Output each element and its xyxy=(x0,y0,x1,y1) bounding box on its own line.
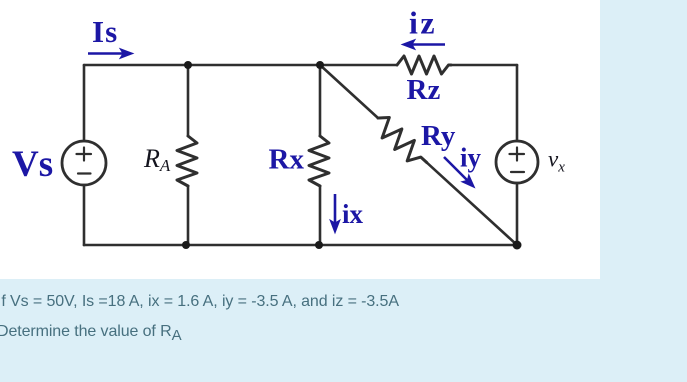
svg-text:Vs: Vs xyxy=(12,144,53,185)
svg-text:vx: vx xyxy=(548,147,565,176)
svg-text:iz: iz xyxy=(409,5,437,41)
svg-text:ix: ix xyxy=(342,199,364,229)
svg-text:Ry: Ry xyxy=(421,120,456,152)
svg-text:Rz: Rz xyxy=(407,74,441,106)
svg-text:Rx: Rx xyxy=(269,144,305,176)
svg-text:RA: RA xyxy=(143,144,171,175)
svg-text:iy: iy xyxy=(460,143,482,173)
svg-text:Is: Is xyxy=(92,14,118,49)
